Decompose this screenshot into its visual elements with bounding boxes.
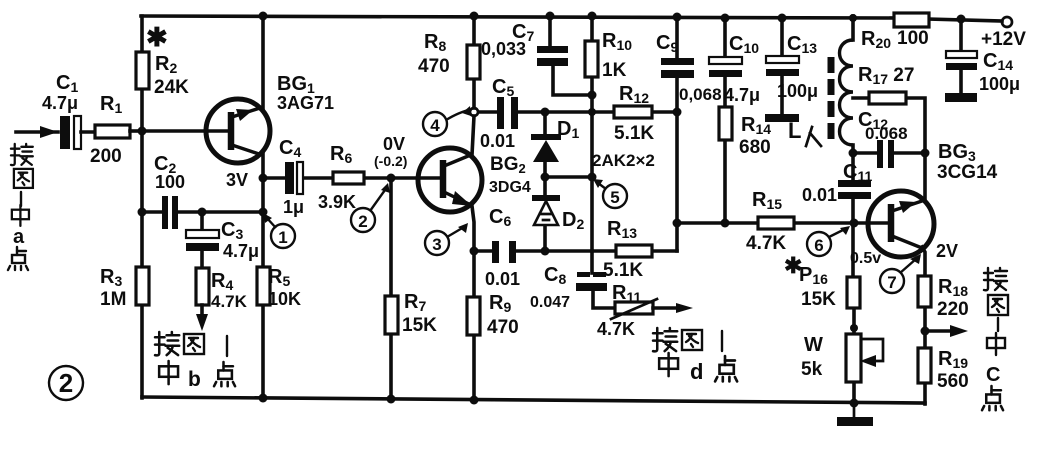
- svg-text:3AG71: 3AG71: [277, 93, 334, 113]
- bottom-left note: dian: [214, 362, 235, 386]
- wire R18 to R19: [923, 307, 927, 348]
- svg-text:220: 220: [937, 299, 969, 320]
- wire BG1 base: [142, 129, 229, 133]
- transistor BG1 3AG71 (PNP): [206, 99, 270, 163]
- capacitor C5 0.01: [497, 97, 518, 129]
- node 6 (BG3 base): [850, 219, 859, 228]
- right margin text: zhong: [987, 333, 1005, 355]
- resistor R19 560: [918, 348, 931, 383]
- svg-text:3V: 3V: [226, 170, 248, 190]
- resistor R9 470: [467, 297, 480, 335]
- svg-text:1K: 1K: [602, 60, 627, 81]
- svg-text:15K: 15K: [801, 289, 836, 310]
- resistor R12 5.1K: [614, 106, 652, 118]
- wire C5 row (detector node): [479, 110, 497, 114]
- annotation circled 2: [351, 183, 390, 232]
- wire top supply rail: [141, 16, 894, 18]
- wire C4 to R6 to BG2 base: [263, 176, 285, 180]
- wire R15 row: [677, 221, 758, 225]
- svg-text:4.7K: 4.7K: [211, 292, 248, 311]
- wire P16 to W to ground: [852, 308, 856, 403]
- wire C9 column: [675, 16, 679, 58]
- node R14 bottom: [721, 219, 730, 228]
- svg-text:b: b: [188, 368, 201, 391]
- svg-text:W: W: [804, 334, 823, 356]
- wire top rail right of R20 to +12V terminal: [928, 19, 1002, 21]
- wire BG1 collector column down (3V node, R5): [261, 153, 265, 399]
- svg-text:100μ: 100μ: [777, 81, 818, 101]
- node D2 bottom: [541, 247, 550, 256]
- node C7 bottom: [588, 91, 597, 100]
- resistor R18 220: [918, 276, 931, 307]
- svg-text:1M: 1M: [100, 289, 126, 310]
- svg-text:4.7μ: 4.7μ: [724, 85, 760, 105]
- capacitor C13 100u: [765, 56, 799, 122]
- bottom-middle note: jie: [653, 328, 677, 351]
- node R15 left: [673, 219, 682, 228]
- capacitor C9 0.068: [661, 58, 694, 78]
- node L bottom / C12 left: [849, 149, 858, 158]
- wire C10/R14 column: [723, 16, 727, 57]
- svg-text:4: 4: [430, 116, 440, 135]
- svg-text:24K: 24K: [154, 77, 189, 98]
- svg-text:5: 5: [610, 188, 619, 207]
- pointer lambda to coil: [806, 127, 821, 146]
- node top rail junctions: [259, 12, 268, 21]
- input arrow from diagram 1 point a: [16, 126, 58, 138]
- left margin text: zhong (middle): [12, 205, 29, 226]
- output arrow to diagram 1 point C: [928, 325, 968, 337]
- node D1 top: [541, 108, 550, 117]
- node P16/W: [850, 324, 858, 332]
- left margin text: dian (point): [8, 247, 28, 270]
- node 4 open junction: [470, 108, 478, 116]
- ground symbol: [837, 403, 873, 426]
- wire R17 row and BG3 collector column: [853, 96, 869, 100]
- capacitor C1 4.7u: [60, 116, 95, 149]
- bottom-left note: tu: [184, 334, 204, 354]
- svg-text:6: 6: [814, 236, 823, 255]
- svg-text:3CG14: 3CG14: [937, 162, 998, 183]
- svg-text:560: 560: [937, 371, 969, 392]
- wire C12 row: [853, 151, 877, 155]
- left margin text: tu (diagram): [14, 169, 33, 188]
- svg-text:L: L: [788, 118, 801, 143]
- wire C6 row to R13: [474, 249, 492, 253]
- svg-text:1: 1: [278, 228, 287, 247]
- diode D2 2AK2: [532, 195, 560, 225]
- wire BG3 emitter down to R18: [922, 247, 925, 276]
- svg-text:100: 100: [897, 28, 929, 49]
- annotation circled 5: [593, 179, 627, 208]
- svg-text:470: 470: [418, 56, 450, 77]
- left margin text: yi (1): [20, 192, 22, 206]
- wire C13 column: [780, 16, 784, 57]
- capacitor C3 4.7u: [186, 230, 219, 251]
- resistor R7 15K: [385, 296, 398, 334]
- capacitor C8 0.047: [576, 272, 607, 291]
- annotation circled 4: [423, 106, 471, 136]
- resistor R1 200: [95, 125, 130, 138]
- svg-text:5.1K: 5.1K: [614, 123, 654, 144]
- transistor BG3 3CG14 (PNP): [868, 191, 934, 257]
- node R12 right: [673, 108, 682, 117]
- svg-text:2: 2: [358, 212, 367, 231]
- wire C3/R4 column: [200, 212, 204, 230]
- svg-text:(-0.2): (-0.2): [374, 153, 407, 169]
- svg-text:0.01: 0.01: [802, 185, 837, 205]
- resistor R14 680: [719, 107, 732, 140]
- wire bottom ground rail: [142, 397, 925, 403]
- node 3V / C4: [259, 174, 268, 183]
- svg-text:0V: 0V: [383, 134, 405, 154]
- capacitor C2 100: [162, 196, 178, 229]
- node C2 left: [138, 208, 147, 217]
- resistor R17 27: [869, 92, 906, 104]
- wire left vertical branch (R2/R3 column): [140, 16, 144, 398]
- svg-text:0.5v: 0.5v: [850, 250, 881, 267]
- svg-text:200: 200: [90, 146, 122, 167]
- node C3 top: [198, 208, 207, 217]
- wire BG2 collector to node 4: [472, 116, 474, 155]
- wire D1 top lead: [543, 112, 547, 135]
- resistor R2 24K: [136, 52, 149, 89]
- svg-text:5.1K: 5.1K: [603, 260, 643, 281]
- capacitor C7 0.033: [537, 46, 568, 66]
- wire C2 row: [142, 210, 162, 214]
- capacitor C12 0.068: [877, 140, 894, 168]
- svg-text:1μ: 1μ: [283, 197, 304, 217]
- wire D2 bottom lead: [543, 226, 547, 251]
- svg-text:a: a: [13, 226, 25, 248]
- capacitor C4 1u: [285, 162, 303, 194]
- wire R9 column: [472, 251, 476, 297]
- wire C8 stub: [590, 251, 594, 273]
- svg-text:4.7K: 4.7K: [746, 233, 786, 254]
- bottom-left note: 1: [226, 336, 228, 356]
- figure number circled 2: [49, 366, 83, 400]
- rheostat R11 4.7K with wiper arrow: [611, 299, 693, 319]
- arrow below R4 to diagram 1 point b: [196, 305, 208, 331]
- annotation circled 1: [263, 213, 295, 248]
- wire R1 to base node: [130, 129, 142, 133]
- svg-text:2V: 2V: [936, 241, 958, 261]
- wire R10 column (long middle branch): [590, 16, 594, 41]
- inductor L with core: [831, 40, 853, 145]
- wire C14 column: [959, 18, 963, 51]
- bottom-middle note: tu: [682, 330, 702, 350]
- wire BG2 emitter down to R9: [472, 206, 474, 251]
- capacitor C11 0.01: [838, 180, 871, 199]
- wire BG1 emitter column to top rail: [261, 16, 265, 109]
- node R12 left: [588, 108, 596, 116]
- capacitor C14 100u: [945, 51, 977, 102]
- node 5 junction: [588, 173, 597, 182]
- svg-text:2AK2×2: 2AK2×2: [592, 151, 655, 170]
- bottom-left note: jie: [155, 332, 179, 355]
- svg-text:4.7μ: 4.7μ: [223, 241, 259, 261]
- capacitor C6 0.01: [492, 241, 516, 263]
- svg-text:0,033: 0,033: [481, 39, 526, 59]
- node R1/base: [138, 127, 147, 136]
- node bottom rail junctions: [259, 394, 268, 403]
- svg-text:100μ: 100μ: [979, 74, 1020, 94]
- capacitor C10 4.7u: [709, 57, 742, 77]
- svg-text:0.01: 0.01: [485, 269, 520, 289]
- svg-text:3DG4: 3DG4: [489, 179, 531, 196]
- svg-text:15K: 15K: [402, 315, 437, 336]
- resistor R15 4.7K: [758, 217, 794, 229]
- wire L bottom to C11 to node 6: [851, 145, 855, 181]
- wire R7 column: [389, 178, 393, 296]
- resistor R20 100: [894, 13, 929, 27]
- svg-text:5k: 5k: [801, 359, 823, 380]
- svg-text:100: 100: [155, 172, 185, 192]
- right margin text: jie: [984, 268, 1007, 290]
- svg-text:0.047: 0.047: [530, 294, 570, 311]
- bottom-middle note: dian: [715, 356, 737, 381]
- transistor BG2 3DG4 (NPN): [418, 148, 482, 212]
- svg-text:4.7μ: 4.7μ: [42, 93, 78, 113]
- bottom-middle note: zhong: [659, 353, 678, 376]
- svg-text:7: 7: [887, 273, 896, 292]
- wire BG3 base: [854, 221, 889, 225]
- left margin text: jie (connect): [11, 144, 33, 165]
- svg-text:0,068: 0,068: [679, 85, 722, 104]
- bottom-middle note: 1: [721, 331, 723, 351]
- right margin text: dian: [982, 386, 1003, 410]
- wire R8 column: [472, 16, 476, 45]
- svg-text:2: 2: [59, 368, 73, 398]
- right margin text: yi: [997, 318, 999, 331]
- node R9 top / C6 left: [470, 247, 479, 256]
- resistor P16 15K: [847, 277, 860, 308]
- wire D1-D2 junction row to node 5: [543, 162, 547, 197]
- wire L column top: [851, 16, 855, 40]
- svg-text:d: d: [690, 359, 703, 384]
- node R18/R19 output: [921, 327, 930, 336]
- svg-text:4.7K: 4.7K: [597, 319, 635, 339]
- resistor R8 470: [467, 45, 480, 79]
- node 2 (R6/R7/base BG2): [387, 174, 396, 183]
- svg-text:0.068: 0.068: [865, 124, 908, 143]
- svg-text:0.01: 0.01: [480, 131, 515, 151]
- svg-text:10K: 10K: [268, 289, 301, 309]
- node 1 (C2 right): [259, 208, 268, 217]
- svg-text:3.9K: 3.9K: [318, 192, 356, 212]
- resistor R10 1K: [585, 41, 598, 77]
- resistor R4 4.7K: [196, 268, 209, 305]
- resistor R3 1M: [136, 267, 149, 305]
- svg-text:680: 680: [739, 137, 771, 158]
- svg-text:470: 470: [487, 317, 519, 338]
- right margin text: tu: [988, 295, 1008, 315]
- resistor R6 3.9K: [333, 172, 364, 184]
- +12V terminal: [1002, 17, 1012, 27]
- wire R19 to ground rail: [923, 383, 927, 404]
- svg-text:C: C: [986, 364, 1000, 386]
- annotation circled 6: [807, 226, 850, 256]
- diode D1 2AK2: [531, 134, 561, 162]
- potentiometer W 5k with wiper: [846, 334, 883, 382]
- annotation circled 3: [425, 223, 468, 255]
- svg-text:3: 3: [432, 235, 441, 254]
- bottom-left note: zhong: [159, 361, 178, 384]
- svg-text:+12V: +12V: [981, 29, 1026, 50]
- resistor R5 10K: [257, 267, 270, 305]
- node C12 right: [921, 149, 930, 158]
- wire C7 leads: [548, 16, 552, 47]
- svg-text:✱: ✱: [146, 22, 168, 52]
- annotation circled 7: [880, 254, 921, 293]
- resistor R13 5.1K: [616, 245, 652, 257]
